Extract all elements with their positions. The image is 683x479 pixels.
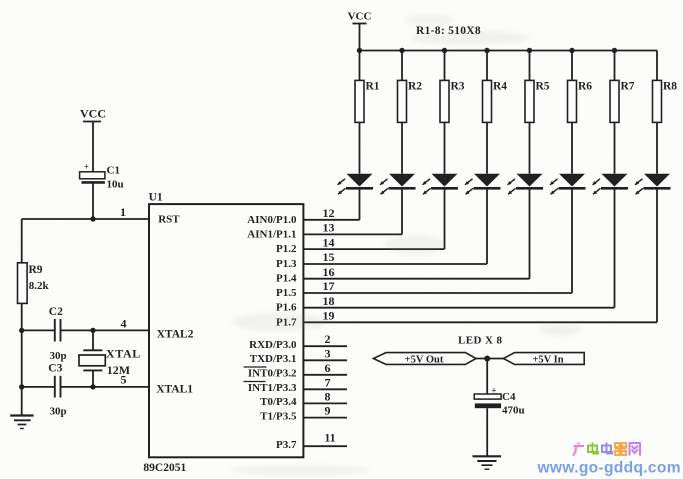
wire rail to R3	[444, 51, 446, 81]
wire LED8 cathode to pin 19	[656, 188, 658, 322]
wire pin 13 to LED2 column	[303, 233, 402, 235]
pin label AIN1/P1.1	[247, 228, 296, 240]
resistor R1 510	[355, 80, 380, 122]
wire R4 to LED4	[486, 122, 488, 173]
pin number 19	[323, 309, 335, 323]
pin number 3	[325, 346, 331, 360]
resistor R6 510	[568, 80, 593, 122]
pin number 13	[323, 221, 335, 235]
IC U1 89C2051 body	[149, 204, 303, 457]
wire LED5 cathode to pin 16	[529, 188, 531, 278]
pin label RST	[158, 214, 180, 226]
pin number 8	[325, 389, 331, 403]
wire R7 to LED7	[614, 122, 616, 173]
pin label P1.3	[276, 258, 297, 270]
pin label P3.7	[276, 439, 297, 451]
wire pin 14 to LED3 column	[303, 248, 444, 250]
wire rail to R2	[401, 51, 403, 81]
pin number 12	[323, 206, 335, 220]
node junction crystal top	[90, 328, 95, 333]
pin label T1/P3.5	[260, 410, 297, 422]
wire pin 9 stub P3 side	[303, 417, 347, 419]
pin label AIN0/P1.0	[247, 214, 297, 226]
node junction rail R2	[399, 48, 404, 53]
node junction rail R5	[527, 48, 532, 53]
LED D2	[380, 174, 416, 195]
wire pin 7 stub P3 side	[303, 388, 347, 390]
resistor R3 510	[440, 80, 465, 122]
wire RST net pin1 row	[22, 218, 149, 220]
wire rail to R1	[359, 51, 361, 81]
capacitor C3 30p	[48, 363, 66, 418]
node junction +5V	[484, 356, 490, 362]
label LED X 8	[458, 335, 502, 347]
power symbol VCC (LED rail)	[348, 11, 372, 51]
wire rail to R7	[614, 51, 616, 81]
wire rail to R8	[656, 51, 658, 81]
wire pin 11 stub P3.7	[303, 445, 347, 447]
wire pin 18 to LED7 column	[303, 307, 614, 309]
ground C4	[473, 456, 502, 469]
wire R5 to LED5	[529, 122, 531, 173]
resistor R5 510	[525, 80, 550, 122]
pin number 7	[325, 375, 331, 389]
resistor R7 510	[610, 80, 635, 122]
pin label TXD/P3.1	[250, 353, 297, 365]
wire R6 to LED6	[571, 122, 573, 173]
wire LED1 cathode to pin 12	[359, 188, 361, 220]
resistor R4 510	[483, 80, 508, 122]
wire R3 to LED3	[444, 122, 446, 173]
pin number 14	[323, 235, 335, 249]
LED D7	[593, 174, 629, 195]
LED D4	[465, 174, 501, 195]
capacitor C4 470u polarized	[474, 386, 524, 417]
wire pin 12 to LED1 column	[303, 219, 359, 221]
LED D6	[550, 174, 586, 195]
LED D1	[338, 174, 374, 195]
node junction rail R7	[612, 48, 617, 53]
capacitor C2 30p	[49, 306, 67, 362]
pin number 9	[325, 404, 331, 418]
pin label P1.2	[276, 243, 297, 255]
watermark URL	[537, 460, 681, 477]
wire pin 3 stub P3 side	[303, 359, 347, 361]
pin label XTAL2	[157, 329, 194, 341]
LED D5	[508, 174, 544, 195]
wire XTAL1 net pin5 row	[22, 386, 149, 388]
resistor R8 510	[653, 80, 678, 122]
wire pin 6 stub P3 side	[303, 374, 347, 376]
scan smudge ghosts	[230, 15, 582, 475]
watermark site name	[573, 443, 640, 456]
wire LED3 cathode to pin 14	[444, 188, 446, 249]
pin number 11	[324, 431, 335, 445]
wire pin 2 stub P3 side	[303, 345, 347, 347]
resistor R9 8.2k	[18, 263, 50, 304]
pin label P1.7	[276, 316, 297, 328]
wire LED4 cathode to pin 15	[486, 188, 488, 264]
node junction rail R4	[484, 48, 489, 53]
pin label INT1/P3.3	[244, 382, 297, 395]
pin label P1.5	[276, 287, 297, 299]
pin number 16	[323, 265, 335, 279]
node junction rail R1	[357, 48, 362, 53]
node junction rail R3	[442, 48, 447, 53]
pin number 4 XTAL2	[121, 317, 127, 331]
pin label XTAL1	[156, 384, 193, 396]
wire pin 8 stub P3 side	[303, 402, 347, 404]
ground left (crystal caps)	[10, 416, 33, 429]
wire LED6 cathode to pin 17	[571, 188, 573, 293]
pin number 17	[323, 279, 335, 293]
wire pin 19 to LED8 column	[303, 321, 657, 323]
node junction RST C1	[90, 216, 95, 221]
pin label P1.4	[276, 273, 297, 285]
wire VCC rail	[360, 50, 658, 52]
node junction crystal bottom	[90, 384, 95, 389]
resistor R2 510	[398, 80, 423, 122]
node junction rail R6	[569, 48, 574, 53]
connector tag +5V Out	[373, 353, 476, 366]
wire +5V junction to C4	[486, 359, 488, 395]
label 89C2051	[143, 462, 186, 474]
wire between +5V tags	[476, 358, 503, 360]
pin number 18	[323, 294, 335, 308]
LED D3	[423, 174, 459, 195]
wire rail to R4	[486, 51, 488, 81]
wire R8 to LED8	[656, 122, 658, 173]
LED D8	[635, 174, 671, 195]
wire LED7 cathode to pin 18	[614, 188, 616, 307]
label R1-8: 510X8	[416, 25, 481, 37]
wire R1 to LED1	[359, 122, 361, 173]
wire C4 to ground	[486, 408, 488, 456]
wire rail to R6	[571, 51, 573, 81]
pin number 1 RST	[120, 205, 126, 219]
pin number 2	[325, 332, 331, 346]
node junction left bus XTAL1	[19, 384, 24, 389]
power symbol VCC (reset circuit)	[80, 107, 106, 172]
wire pin 15 to LED4 column	[303, 263, 487, 265]
wire LED2 cathode to pin 13	[401, 188, 403, 234]
capacitor C1 10u polarized	[80, 162, 124, 220]
wire pin 16 to LED5 column	[303, 278, 529, 280]
wire pin 17 to LED6 column	[303, 292, 572, 294]
wire R2 to LED2	[401, 122, 403, 173]
connector tag +5V In	[503, 353, 584, 366]
svg-text:www.go-gddq.com: www.go-gddq.com	[537, 460, 681, 477]
pin number 15	[323, 250, 335, 264]
crystal XTAL 12M	[79, 330, 141, 387]
pin number 6	[325, 361, 331, 375]
node junction left bus XTAL2	[19, 328, 24, 333]
label U1	[149, 192, 163, 204]
pin label P1.6	[276, 302, 297, 314]
wire XTAL2 net pin4 row	[22, 329, 149, 331]
wire left vertical bus	[21, 219, 23, 416]
pin label RXD/P3.0	[249, 339, 297, 351]
pin label INT0/P3.2	[244, 367, 297, 380]
pin number 5 XTAL1	[121, 373, 127, 387]
pin label T0/P3.4	[260, 396, 297, 408]
wire rail to R5	[529, 51, 531, 81]
